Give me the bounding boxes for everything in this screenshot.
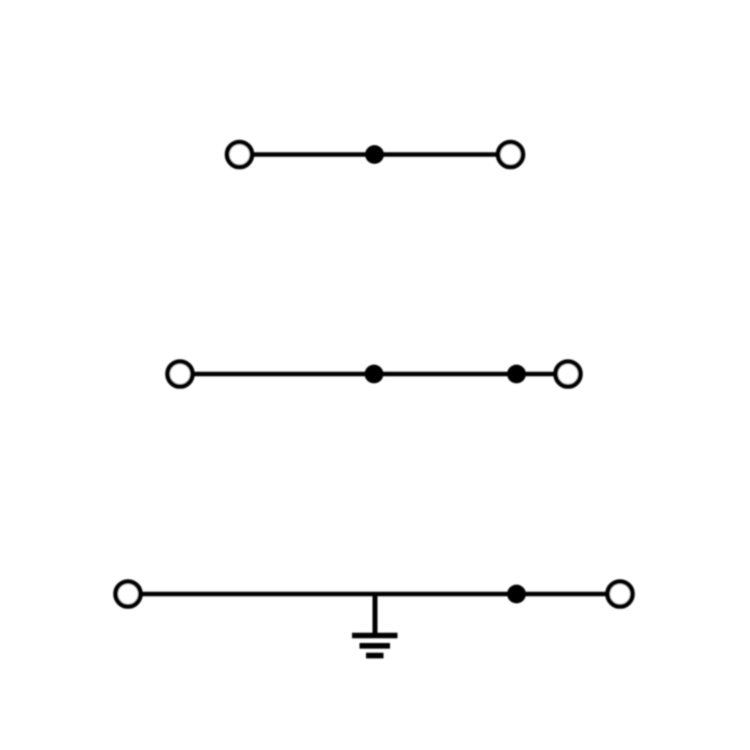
junction node (middle level right dot): [507, 365, 526, 384]
terminal 4 (middle-right open circle): [556, 362, 581, 387]
ground: [352, 636, 398, 656]
wire (ground stem): [373, 594, 378, 633]
wire (middle level, between terminals): [192, 372, 556, 376]
terminal 1 (top-left open circle): [227, 142, 252, 167]
junction node (middle level center dot): [365, 365, 384, 384]
terminal 6 (bottom-right open circle): [608, 582, 633, 607]
wire (top level, between terminals): [252, 152, 498, 156]
terminal 2 (top-right open circle): [498, 142, 523, 167]
junction node (top level center dot): [365, 145, 384, 164]
terminal 3 (middle-left open circle): [168, 362, 193, 387]
terminal 5 (bottom-left open circle): [116, 582, 141, 607]
wire (bottom level, between terminals): [140, 592, 608, 596]
junction node (bottom level right dot): [507, 585, 526, 604]
